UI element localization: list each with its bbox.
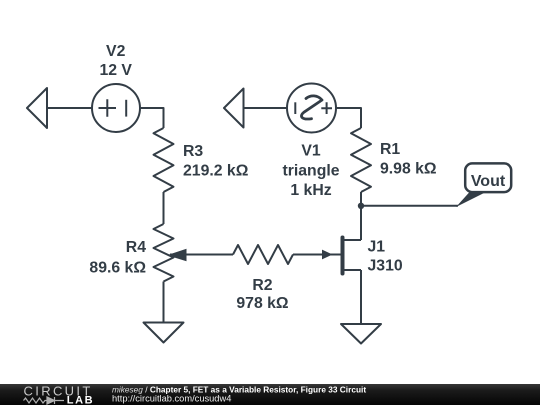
Vout flag box bbox=[465, 163, 511, 192]
svg-text:12 V: 12 V bbox=[99, 62, 132, 79]
resistor R1 bbox=[351, 128, 371, 192]
wire R4 to ground bbox=[163, 282, 165, 323]
V2 minus terminal bbox=[125, 100, 127, 117]
wire R3 to R4 bbox=[163, 192, 165, 224]
wire node to J1 drain bbox=[360, 206, 362, 240]
wire R1 to node bbox=[360, 192, 362, 206]
V2 plus terminal bbox=[99, 99, 117, 117]
svg-text:1 kHz: 1 kHz bbox=[290, 182, 331, 199]
svg-text:J310: J310 bbox=[368, 258, 403, 275]
Vout flag tail bbox=[456, 192, 487, 208]
svg-text:J1: J1 bbox=[368, 238, 386, 255]
net flag arrow left of V1 bbox=[224, 89, 244, 128]
svg-text:R1: R1 bbox=[380, 141, 400, 158]
wire flag to V2 bbox=[47, 107, 92, 109]
wire node to Vout bbox=[361, 205, 458, 207]
wiper wire to R2 bbox=[170, 254, 233, 256]
ground under J1 bbox=[341, 324, 381, 344]
voltage source V1 circle bbox=[287, 84, 336, 133]
transistor J1 source lead bbox=[345, 269, 362, 271]
voltage source V2 circle bbox=[92, 84, 140, 132]
svg-text:V1: V1 bbox=[301, 143, 321, 160]
wire V1 to R1 bbox=[336, 108, 361, 128]
resistor R3 bbox=[154, 128, 174, 192]
svg-text:978 kΩ: 978 kΩ bbox=[236, 295, 289, 312]
R4 wiper arrowhead bbox=[167, 249, 187, 261]
V1 minus terminal bbox=[294, 102, 296, 114]
wire flag to V1 bbox=[244, 107, 288, 109]
svg-text:89.6 kΩ: 89.6 kΩ bbox=[89, 260, 146, 277]
net flag arrow left of V2 bbox=[27, 88, 47, 128]
svg-text:LAB: LAB bbox=[67, 395, 94, 405]
resistor R2 bbox=[233, 245, 293, 264]
wire V2 to R3 bbox=[140, 108, 164, 128]
svg-text:R3: R3 bbox=[183, 143, 203, 160]
transistor J1 channel bar bbox=[341, 238, 345, 274]
svg-text:219.2 kΩ: 219.2 kΩ bbox=[183, 163, 249, 180]
svg-text:Vout: Vout bbox=[471, 173, 506, 190]
J1 gate arrowhead bbox=[322, 250, 333, 260]
V1 plus terminal bbox=[321, 102, 332, 114]
wire R2 to J1 gate bbox=[293, 254, 341, 256]
svg-text:R2: R2 bbox=[252, 277, 272, 294]
svg-text:R4: R4 bbox=[126, 239, 146, 256]
V1 triangle wave icon bbox=[301, 96, 322, 119]
svg-text:triangle: triangle bbox=[282, 163, 339, 180]
wire J1 source to ground bbox=[360, 270, 362, 324]
footer bar bbox=[0, 384, 540, 405]
svg-text:9.98 kΩ: 9.98 kΩ bbox=[380, 161, 437, 178]
ground under R4 bbox=[144, 323, 184, 343]
CircuitLab logo resistor-diode icon bbox=[24, 397, 65, 404]
potentiometer R4 bbox=[154, 224, 174, 282]
node junction dot bbox=[358, 203, 364, 209]
svg-text:V2: V2 bbox=[106, 43, 126, 60]
transistor J1 drain lead bbox=[345, 239, 362, 241]
svg-text:http://circuitlab.com/cusudw4: http://circuitlab.com/cusudw4 bbox=[112, 394, 231, 404]
